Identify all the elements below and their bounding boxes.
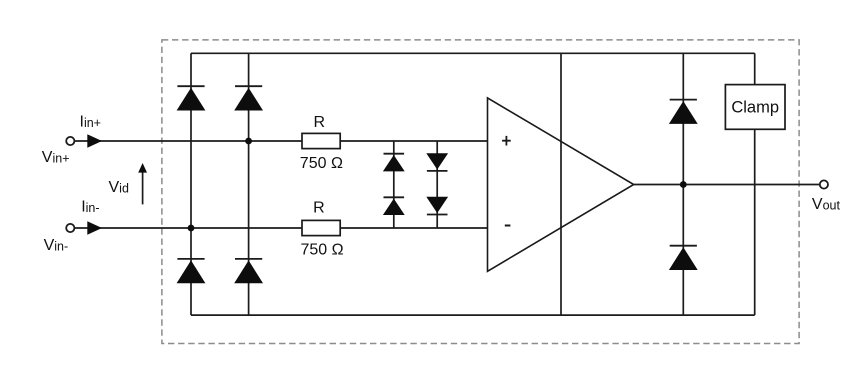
clamp block U2 bbox=[725, 85, 785, 130]
wire: clamp block bottom lead bbox=[754, 129, 756, 315]
resistor R (upper) bbox=[302, 133, 340, 148]
svg-text:Iin+: Iin+ bbox=[80, 113, 101, 130]
wire: top supply rail bbox=[191, 52, 755, 54]
diode D10 output clamp lower bbox=[669, 246, 698, 270]
terminal Vout bbox=[820, 180, 828, 188]
node: junction Vin- / column 1 bbox=[188, 225, 195, 232]
IC boundary dashed box bbox=[162, 40, 799, 344]
svg-text:Vout: Vout bbox=[812, 196, 841, 213]
wire: Vin+ input line bbox=[75, 140, 488, 142]
wire: differential diode chain B bbox=[436, 141, 438, 228]
wire: vertical protection column 2 (Vin+ clamp diodes) bbox=[248, 53, 250, 315]
diode D8 chain B lower (points down) bbox=[426, 197, 448, 215]
diode D4 lower clamp on column 2 bbox=[234, 259, 263, 283]
Vid arrow bbox=[138, 163, 147, 204]
svg-text:750 Ω: 750 Ω bbox=[301, 241, 344, 258]
diode D6 chain A lower bbox=[383, 197, 405, 215]
wire: clamp block top lead bbox=[754, 53, 756, 84]
node: junction output / clamp diodes bbox=[680, 181, 687, 188]
diode D3 lower clamp on column 1 bbox=[177, 259, 206, 283]
svg-text:Clamp: Clamp bbox=[731, 99, 779, 117]
op-amp U1 bbox=[488, 98, 634, 271]
svg-text:Vin-: Vin- bbox=[44, 237, 69, 254]
svg-text:Iin-: Iin- bbox=[81, 199, 99, 216]
node: junction Vin+ / column 2 bbox=[245, 138, 252, 145]
wire: output line to Vout bbox=[634, 184, 820, 186]
diode D1 upper clamp on column 1 bbox=[177, 86, 206, 110]
diode D7 chain B upper (points down) bbox=[426, 153, 448, 171]
op-amp minus input marker bbox=[505, 225, 511, 227]
svg-text:R: R bbox=[313, 200, 325, 217]
wire: Vin- input line bbox=[75, 227, 488, 229]
wire: differential diode chain A bbox=[393, 141, 395, 228]
wire: bottom supply rail bbox=[191, 314, 755, 316]
wire: vertical supply link through op-amp bbox=[560, 53, 562, 315]
resistor R (lower) bbox=[302, 220, 340, 235]
diode D2 upper clamp on column 2 bbox=[234, 86, 263, 110]
svg-text:750 Ω: 750 Ω bbox=[300, 155, 343, 172]
op-amp plus input marker bbox=[502, 136, 511, 146]
diode D9 output clamp upper bbox=[669, 100, 698, 124]
current arrow Iin+ bbox=[87, 134, 102, 148]
svg-text:Vid: Vid bbox=[109, 179, 129, 196]
svg-text:R: R bbox=[314, 114, 326, 131]
diode D5 chain A upper (anti-parallel pair) bbox=[383, 154, 405, 172]
wire: vertical protection column 1 (Vin- clamp diodes) bbox=[190, 53, 192, 315]
wire: output clamp diode column bbox=[682, 53, 684, 315]
current arrow Iin- bbox=[87, 221, 102, 235]
terminal Vin+ bbox=[66, 137, 74, 145]
terminal Vin- bbox=[66, 224, 74, 232]
svg-text:Vin+: Vin+ bbox=[42, 149, 70, 166]
